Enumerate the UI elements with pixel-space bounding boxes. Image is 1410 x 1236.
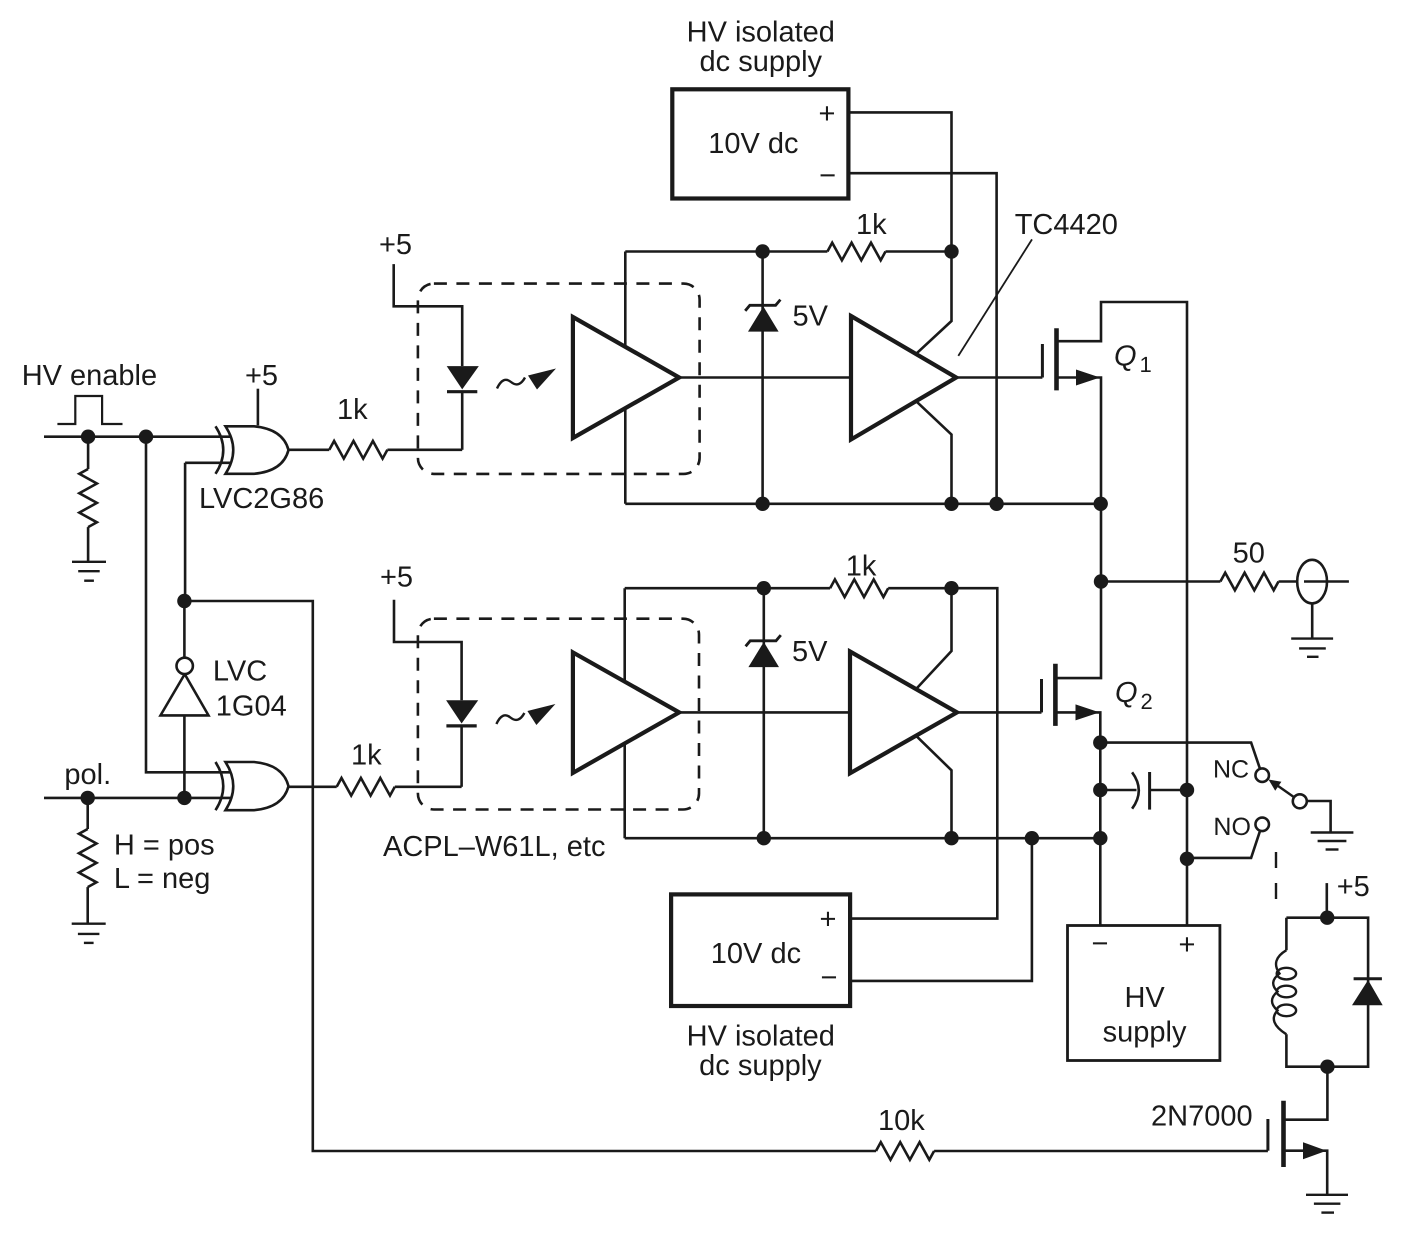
buffer A1 triangle <box>573 317 679 438</box>
wire inverter input <box>183 715 186 798</box>
wire zener Z2 branch <box>762 588 765 838</box>
svg-text:+: + <box>1179 929 1196 961</box>
svg-text:−: − <box>821 962 838 994</box>
wire 10V supply1 minus <box>848 173 996 504</box>
inverter U2 triangle <box>161 674 209 715</box>
wire driver2 Vplus pin <box>916 588 952 689</box>
XOR gate U1B body <box>216 762 289 810</box>
transistor Q3 source arrow <box>1303 1142 1327 1159</box>
wire R4 to LED2 <box>395 785 462 788</box>
transistor Q2 source arrow <box>1076 704 1100 720</box>
svg-text:10V dc: 10V dc <box>708 128 798 160</box>
capacitor C1 curved plate <box>1132 772 1139 808</box>
wire driver2 output to Q2 gate <box>957 711 1042 714</box>
wire coil bottom node to 2N7000 drain <box>1284 1067 1328 1120</box>
zener Z2 <box>746 635 781 667</box>
XOR gate U1A body <box>216 426 289 474</box>
transistor Q1 source arrow <box>1076 370 1100 386</box>
wire +5 to LED2 anode <box>394 600 462 701</box>
optocoupler U3 dashed package <box>418 284 700 474</box>
svg-text:ACPL–W61L, etc: ACPL–W61L, etc <box>383 831 605 863</box>
ground GND2 <box>72 924 106 943</box>
svg-text:HV enable: HV enable <box>22 360 157 392</box>
wire NO contact branch <box>1187 831 1260 858</box>
svg-text:pol.: pol. <box>64 759 111 791</box>
svg-text:1k: 1k <box>351 740 382 772</box>
node pol input <box>44 797 231 800</box>
wire HV enable to XOR2 <box>146 437 231 773</box>
optocoupler U4 dashed package <box>418 619 699 810</box>
wire buffer2 power stub <box>623 588 626 838</box>
svg-text:+5: +5 <box>379 229 412 261</box>
svg-text:+: + <box>820 904 837 936</box>
wire XOR1 output <box>289 448 330 451</box>
svg-text:H = pos: H = pos <box>114 830 215 862</box>
mechanical linkage dashed <box>1275 852 1277 902</box>
wire relay coil loop frame <box>1286 918 1368 1067</box>
node output to 50 ohm <box>1101 580 1220 583</box>
wire capacitor C1 right lead <box>1150 789 1187 792</box>
wire XOR2 output <box>289 785 337 788</box>
ground GND1 <box>72 562 106 581</box>
relay wiper arrow <box>1269 780 1295 798</box>
transistor Q2 channel bar <box>1053 664 1058 726</box>
svg-text:NO: NO <box>1213 813 1251 841</box>
transistor Q1 gate bar <box>1041 344 1044 378</box>
driver U6 TC4420 triangle <box>850 652 957 774</box>
capacitor C1 straight plate <box>1148 772 1151 810</box>
svg-text:2N7000: 2N7000 <box>1151 1101 1253 1133</box>
svg-text:+: + <box>819 98 836 130</box>
svg-text:LVC: LVC <box>213 656 267 688</box>
inverter U2 bubble <box>177 658 193 674</box>
svg-text:50: 50 <box>1233 538 1265 570</box>
svg-text:LVC2G86: LVC2G86 <box>199 483 324 515</box>
svg-text:−: − <box>1092 928 1109 960</box>
svg-text:2: 2 <box>1141 689 1153 714</box>
resistor R1 <box>79 469 97 527</box>
svg-text:TC4420: TC4420 <box>1015 209 1118 241</box>
resistor R2 <box>79 829 97 887</box>
wire R1 bottom <box>87 527 90 562</box>
wire buffer1 power stub <box>624 252 627 504</box>
LED D2 <box>446 700 478 723</box>
wire 2N7000 source to ground <box>1284 1151 1328 1195</box>
wire driver1 Vminus pin <box>916 401 952 504</box>
wire XOR1 input B <box>185 463 231 601</box>
wire buffer1 output <box>679 376 851 379</box>
svg-text:1k: 1k <box>856 209 887 241</box>
svg-text:HV: HV <box>1124 982 1165 1014</box>
svg-text:+5: +5 <box>245 360 278 392</box>
wire +5 to LED1 anode <box>394 264 463 366</box>
LED D2 cathode bar <box>446 724 476 727</box>
relay contact NO circle <box>1255 818 1269 832</box>
wire LED2 cathode <box>460 726 463 787</box>
transistor Q3 2N7000 channel bar <box>1281 1101 1286 1167</box>
svg-text:HV isolated: HV isolated <box>687 1020 835 1052</box>
wire rail1 bottom <box>625 502 1100 505</box>
resistor R5 1k <box>827 243 885 261</box>
wire Q2 source column to HV minus <box>1055 712 1100 925</box>
resistor R6 1k <box>830 579 888 597</box>
wire rail2 bottom <box>625 837 1101 840</box>
svg-text:1k: 1k <box>846 551 877 583</box>
wire R7 to connector J1 <box>1279 580 1298 583</box>
light arrow U3 <box>497 369 556 390</box>
svg-text:+5: +5 <box>380 562 413 594</box>
wire LED1 cathode <box>461 392 464 450</box>
transistor Q2 gate bar <box>1040 679 1043 712</box>
wire 10k to gate <box>934 1150 1268 1153</box>
wire XOR1 +5 stub <box>257 389 260 426</box>
pulse symbol <box>57 396 122 424</box>
svg-text:1G04: 1G04 <box>216 690 287 722</box>
svg-text:L = neg: L = neg <box>114 863 210 895</box>
connector J1 oval <box>1297 560 1327 604</box>
wire driver1 output to Q1 gate <box>956 376 1042 379</box>
wire J1 center pin <box>1304 580 1349 583</box>
wire R3 to LED1 <box>387 448 462 451</box>
wire relay +5 feed <box>1326 883 1329 918</box>
wire 10V supply1 plus <box>848 112 951 251</box>
zener Z1 <box>745 300 780 332</box>
svg-text:+5: +5 <box>1337 871 1370 903</box>
resistor R8 10k <box>876 1142 934 1160</box>
svg-text:1: 1 <box>1140 352 1152 377</box>
wire R1 top <box>87 437 90 469</box>
wire 10V supply2 minus <box>850 838 1032 981</box>
transistor Q3 2N7000 gate bar <box>1266 1119 1269 1151</box>
wire zener Z1 branch <box>761 252 764 504</box>
svg-text:10V dc: 10V dc <box>711 938 801 970</box>
wire buffer2 output <box>679 711 850 714</box>
callout line TC4420 <box>958 239 1032 356</box>
resistor R4 1k <box>337 778 395 796</box>
svg-text:−: − <box>819 160 836 192</box>
HV supply box B3 <box>1068 926 1220 1061</box>
svg-text:Q: Q <box>1114 341 1137 373</box>
svg-text:NC: NC <box>1213 755 1249 783</box>
wire rail1 top right <box>886 250 952 253</box>
wire R2 top <box>86 798 89 829</box>
relay contact NC circle <box>1255 768 1269 782</box>
wire driver1 Vplus pin <box>916 252 952 354</box>
node HV enable input <box>44 435 231 438</box>
ground GND3 <box>1291 639 1333 657</box>
svg-text:5V: 5V <box>792 636 828 668</box>
relay wiper circle <box>1293 794 1307 808</box>
ground GND5 <box>1306 1195 1348 1213</box>
LED D1 <box>447 366 479 389</box>
wire rail2 top left <box>625 587 830 590</box>
wire inverter output <box>183 601 186 658</box>
wire capacitor C1 left lead <box>1100 789 1136 792</box>
transistor Q1 channel bar <box>1054 328 1059 390</box>
svg-text:HV isolated: HV isolated <box>687 17 835 49</box>
svg-text:1k: 1k <box>337 394 368 426</box>
resistor R3 1k <box>329 441 387 459</box>
svg-text:10k: 10k <box>878 1105 925 1137</box>
wire NC contact branch <box>1100 743 1260 769</box>
flyback diode D3 <box>1352 979 1383 1005</box>
wire rail2 top right to 10V supply2 plus <box>850 588 997 918</box>
wire Q1 drain to HV plus rail <box>1057 302 1188 926</box>
svg-text:Q: Q <box>1115 677 1138 709</box>
light arrow U4 <box>496 704 555 725</box>
ground GND4 <box>1311 833 1354 850</box>
wire J1 shell to ground <box>1311 603 1314 638</box>
svg-text:5V: 5V <box>793 301 829 333</box>
svg-text:dc supply: dc supply <box>699 1050 822 1082</box>
wire inverted pol to 2N7000 gate run <box>184 601 876 1151</box>
wire driver2 Vminus pin <box>916 736 952 839</box>
buffer A2 triangle <box>573 652 679 773</box>
relay coil L1 <box>1272 950 1296 1034</box>
wire R2 bottom <box>86 887 89 924</box>
wire Q1 source / Q2 drain column <box>1055 378 1101 679</box>
wire relay wiper to ground <box>1307 801 1331 833</box>
svg-text:dc supply: dc supply <box>700 46 823 78</box>
driver U5 TC4420 triangle <box>851 316 956 440</box>
10V dc supply box B1 <box>672 89 848 198</box>
svg-text:supply: supply <box>1103 1016 1187 1048</box>
wire rail1 top left <box>625 250 827 253</box>
resistor R7 50 <box>1220 573 1278 591</box>
10V dc supply box B2 <box>671 894 850 1006</box>
LED D1 cathode bar <box>447 390 477 393</box>
